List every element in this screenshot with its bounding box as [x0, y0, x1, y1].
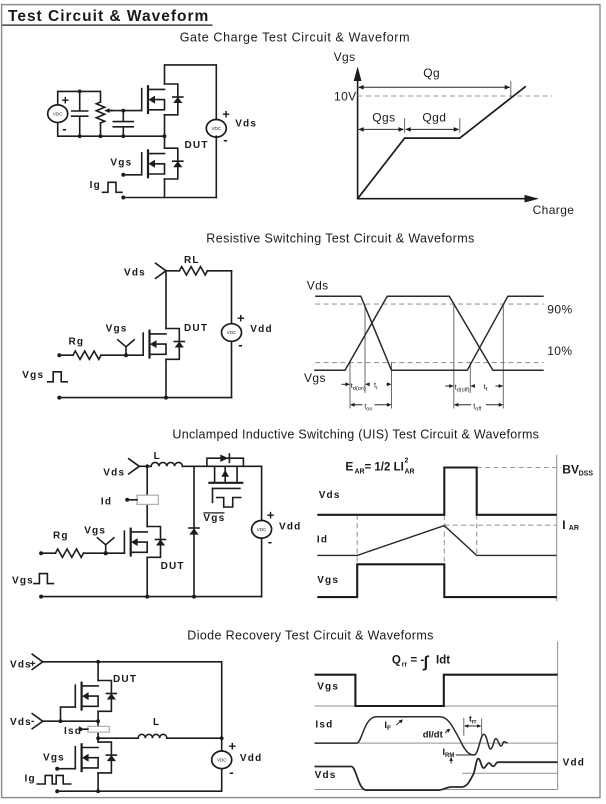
svg-text:Vds: Vds: [103, 468, 125, 479]
svg-text:+: +: [62, 93, 70, 108]
svg-text:rr: rr: [402, 661, 408, 668]
svg-text:L: L: [154, 451, 161, 462]
svg-text:Vdd: Vdd: [279, 521, 302, 532]
svg-text:E: E: [345, 460, 353, 474]
svg-text:Resistive Switching Test Circu: Resistive Switching Test Circuit & Wavef…: [206, 232, 474, 246]
svg-text:Vgs: Vgs: [110, 157, 132, 168]
svg-text:Vds: Vds: [10, 717, 32, 728]
svg-text:+: +: [229, 738, 237, 753]
svg-text:Rg: Rg: [53, 530, 69, 541]
svg-text:Isd: Isd: [64, 726, 82, 737]
svg-text:Vdd: Vdd: [250, 324, 272, 335]
svg-text:DUT: DUT: [184, 323, 208, 334]
svg-text:+: +: [30, 659, 37, 670]
svg-text:Qgd: Qgd: [422, 110, 446, 124]
svg-text:Vds: Vds: [307, 279, 329, 293]
svg-text:AR: AR: [405, 468, 415, 475]
svg-text:Ig: Ig: [90, 180, 101, 191]
svg-text:Vds: Vds: [10, 659, 32, 670]
svg-text:Vdd: Vdd: [563, 758, 586, 769]
svg-text:AR: AR: [569, 525, 579, 532]
svg-text:Vgs: Vgs: [43, 752, 65, 763]
svg-text:Diode Recovery Test Circuit &: Diode Recovery Test Circuit & Waveforms: [187, 628, 433, 642]
svg-text:+: +: [267, 507, 275, 522]
svg-text:Vds: Vds: [235, 119, 257, 130]
svg-text:-: -: [62, 121, 66, 136]
svg-text:Test Circuit & Waveform: Test Circuit & Waveform: [8, 8, 209, 25]
svg-text:90%: 90%: [547, 302, 572, 316]
svg-text:L: L: [153, 717, 160, 728]
svg-text:Gate Charge Test Circuit & Wav: Gate Charge Test Circuit & Waveform: [180, 30, 410, 44]
svg-text:Vdd: Vdd: [240, 753, 263, 764]
svg-text:Vgs: Vgs: [317, 681, 339, 692]
svg-text:dI/dt: dI/dt: [423, 730, 444, 741]
svg-text:Vgs: Vgs: [22, 370, 44, 381]
svg-text:-: -: [238, 337, 242, 352]
svg-text:10V: 10V: [334, 90, 357, 104]
svg-text:-: -: [229, 765, 233, 780]
svg-text:Vgs: Vgs: [106, 324, 128, 335]
svg-text:Vds: Vds: [315, 770, 337, 781]
svg-text:Vgs: Vgs: [84, 525, 106, 536]
svg-text:Q: Q: [392, 655, 401, 667]
svg-text:AR: AR: [355, 468, 365, 475]
svg-text:RL: RL: [184, 255, 200, 266]
svg-text:+: +: [222, 107, 230, 122]
svg-text:Vgs: Vgs: [317, 575, 339, 586]
svg-text:Vgs: Vgs: [304, 371, 326, 385]
svg-text:Id: Id: [317, 535, 328, 546]
svg-text:10%: 10%: [547, 344, 572, 358]
svg-text:-: -: [223, 132, 227, 147]
svg-text:= 1/2 LI: = 1/2 LI: [365, 462, 404, 474]
svg-text:Qg: Qg: [423, 66, 440, 80]
svg-text:Idt: Idt: [436, 655, 450, 667]
svg-text:Vgs: Vgs: [334, 50, 356, 64]
svg-text:+: +: [237, 310, 245, 325]
svg-text:Vds: Vds: [124, 267, 146, 278]
svg-text:2: 2: [405, 458, 409, 465]
svg-text:DUT: DUT: [161, 561, 185, 572]
svg-text:Unclamped Inductive Switching: Unclamped Inductive Switching (UIS) Test…: [172, 427, 539, 441]
svg-text:DUT: DUT: [113, 674, 137, 685]
svg-text:Ig: Ig: [25, 774, 36, 785]
svg-text:-: -: [268, 534, 272, 549]
svg-text:BV: BV: [562, 463, 579, 477]
svg-text:-: -: [31, 716, 36, 727]
svg-text:I: I: [562, 518, 565, 532]
svg-text:= -: = -: [411, 654, 425, 666]
svg-text:Vds: Vds: [319, 490, 341, 501]
svg-text:Qgs: Qgs: [372, 110, 395, 124]
svg-text:Rg: Rg: [69, 337, 85, 348]
svg-text:DSS: DSS: [579, 470, 594, 477]
svg-text:Vgs: Vgs: [203, 513, 225, 524]
svg-text:DUT: DUT: [185, 140, 209, 151]
svg-text:Id: Id: [101, 496, 112, 507]
svg-text:Charge: Charge: [533, 203, 575, 217]
svg-text:Isd: Isd: [315, 720, 333, 731]
svg-text:Vgs: Vgs: [12, 576, 34, 587]
